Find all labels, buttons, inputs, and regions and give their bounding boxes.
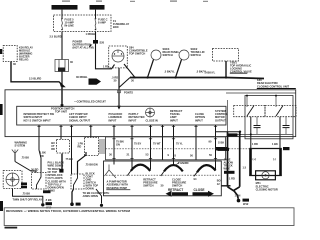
junction square at bus box top x62 <box>61 104 64 107</box>
svg-text:INPUT: INPUT <box>129 118 137 122</box>
ELEC dashed box <box>57 140 70 154</box>
svg-text:S20: S20 <box>100 41 105 45</box>
svg-text:INPUT: INPUT <box>170 118 178 122</box>
jog wire right top <box>216 131 241 133</box>
label 1.5 BK/RD black <box>216 147 228 150</box>
black label stack left <box>48 161 65 177</box>
diagonal from vertical wire to bus <box>119 78 130 88</box>
reference box <box>4 208 294 226</box>
text stack right of switch B <box>86 172 99 191</box>
Y58/1 text with underline <box>230 61 252 74</box>
wire to ground G3 <box>96 189 102 204</box>
svg-text:.5 BK/YL: .5 BK/YL <box>164 70 175 74</box>
bus wire .5 BK/YL horizontal <box>130 78 264 79</box>
svg-text:S BK: S BK <box>218 141 224 145</box>
motor symbol <box>256 171 276 180</box>
pump assembly box <box>104 161 222 196</box>
band dashed centre line <box>106 148 254 150</box>
svg-text:RELAY): RELAY) <box>19 58 29 62</box>
wire bar2 to fuse box <box>95 10 97 18</box>
svg-text:75 BY: 75 BY <box>134 142 141 146</box>
wire switch box down to control unit <box>118 68 120 106</box>
wire 1 RD/BL down from fuse C <box>95 32 97 41</box>
svg-text:REVISIONS: +: WIRING NOTES T: REVISIONS: +: WIRING NOTES TRUCK, EXTERI… <box>6 209 131 213</box>
retract arrow <box>166 191 189 197</box>
svg-text:PONTS: PONTS <box>124 91 133 95</box>
svg-text:(+): (+) <box>253 157 256 161</box>
svg-text:HOT ALWYS: HOT ALWYS <box>91 7 105 10</box>
closing motor box M51 <box>249 149 282 176</box>
wire antenna to switch A <box>15 162 36 173</box>
svg-text:1 BK: 1 BK <box>272 142 278 146</box>
pump dashed line <box>106 174 221 176</box>
K65 relay contact dashed box 1 <box>234 106 265 117</box>
connector square on wire 61 <box>59 169 63 173</box>
left edge artifact 3 <box>0 201 3 211</box>
pump interior switch <box>105 165 117 179</box>
svg-text:OUTPUT: OUTPUT <box>215 118 226 122</box>
ground G3 <box>100 204 103 207</box>
svg-text:DOWN: DOWN <box>86 187 94 191</box>
relay module K30 dashed box <box>3 46 17 62</box>
connector circle S84/3 <box>151 50 161 60</box>
svg-text:RD: RD <box>78 145 82 149</box>
arrowhead into control unit <box>117 106 121 110</box>
convertible top control unit box <box>17 106 226 125</box>
junction line under K65 <box>228 133 293 135</box>
ground G2 <box>70 202 74 206</box>
fuse 5 symbol <box>61 18 63 31</box>
wire switch B to ground <box>72 189 74 203</box>
svg-text:.75 BK: .75 BK <box>21 156 29 160</box>
black labels near horn <box>21 183 27 186</box>
hot-feed label bar 2 (HOT ALWAYS) <box>90 5 105 10</box>
svg-text:CLOSING MOTOR: CLOSING MOTOR <box>256 188 278 192</box>
svg-text:1 GN/RD: 1 GN/RD <box>178 161 189 165</box>
svg-text:.5 BK: .5 BK <box>45 198 52 202</box>
svg-text:REAR ELECTRIC: REAR ELECTRIC <box>257 81 278 85</box>
power distribution pointer arrow <box>89 45 93 49</box>
wire splice block to junction arrow <box>61 72 63 87</box>
svg-text:HOT IN RUN/START: HOT IN RUN/START <box>53 7 76 10</box>
pump arc 2 <box>164 165 183 171</box>
junction arrowhead <box>60 83 65 87</box>
ground W10 <box>41 203 44 206</box>
black label S RD/BK on wire <box>218 148 230 151</box>
S83 connector dashed box <box>85 138 99 156</box>
svg-text:(-): (-) <box>273 157 276 161</box>
svg-text:RETRACT: RETRACT <box>168 188 183 192</box>
pin tick marks <box>37 126 217 158</box>
svg-text:IN-LINE: IN-LINE <box>65 24 75 28</box>
svg-text:75 WT: 75 WT <box>153 142 161 146</box>
left edge artifact 1 <box>0 49 2 54</box>
arc contact marks <box>127 171 197 177</box>
close arrow <box>193 191 215 197</box>
svg-text:CLOSE: CLOSE <box>194 188 205 192</box>
svg-text:SWITCH: SWITCH <box>191 53 201 57</box>
svg-text:.5 BK/YL: .5 BK/YL <box>205 71 216 75</box>
fuse box F1 dashed outline <box>54 15 112 32</box>
label near junction <box>228 133 238 136</box>
svg-text:2.5 BL/RD: 2.5 BL/RD <box>50 35 62 39</box>
svg-text:1.5: 1.5 <box>243 166 247 170</box>
text stack right of switch A <box>48 176 66 192</box>
wire bar1 to fuse box <box>61 10 63 18</box>
svg-text:30 RD/BL: 30 RD/BL <box>76 75 88 79</box>
leg from S84/3 to bus <box>148 60 154 78</box>
wire 2.5 BL/RD down from fuse 5 <box>61 32 63 60</box>
convertible top switch dashed box <box>109 46 128 68</box>
K65 inner box <box>245 96 293 139</box>
top scan specks <box>62 1 208 2</box>
ground W12 <box>237 199 241 203</box>
capacitor 1 <box>254 117 261 135</box>
pump motor note underlined <box>106 180 130 191</box>
fuse C symbol <box>95 18 97 31</box>
junction pin square at y91 line <box>118 90 121 93</box>
pump arc 1 <box>131 165 150 171</box>
svg-text:1 RD: 1 RD <box>252 142 258 146</box>
K65 relay contact dashed box 2 <box>265 106 296 117</box>
svg-text:SIGNAL OUTPUT: SIGNAL OUTPUT <box>69 118 91 122</box>
svg-text:INPUT: INPUT <box>195 118 203 122</box>
contact 2 wire from top <box>275 96 277 108</box>
cu wheel symbol <box>146 108 158 122</box>
thick wire from junction down to ground <box>239 132 241 187</box>
horn dashed box <box>3 171 22 189</box>
svg-text:—CONTROLLED CIRCUIT: —CONTROLLED CIRCUIT <box>74 99 106 103</box>
svg-text:2.5 BL/RD: 2.5 BL/RD <box>29 77 41 81</box>
svg-text:.75 BK/GN: .75 BK/GN <box>85 163 98 167</box>
switch B contact <box>74 174 78 189</box>
svg-text:INPUT: INPUT <box>109 118 117 122</box>
bus box pin drops to band <box>39 125 216 174</box>
wire S83 down-right <box>78 152 87 174</box>
svg-text:W12: W12 <box>243 202 249 206</box>
K65 feed line <box>226 92 296 94</box>
svg-text:.75 BK: .75 BK <box>22 191 30 195</box>
black label stack right of band <box>224 158 235 174</box>
wire splice down to corner <box>96 44 115 69</box>
contact 2 diagonal <box>276 106 283 117</box>
pump arc 3 <box>197 165 216 172</box>
wire ELEC box down <box>61 154 63 172</box>
black bar .5 BN <box>43 190 51 193</box>
diagonal from switch to bus <box>124 64 135 78</box>
connector band box <box>106 137 226 160</box>
antenna symbol <box>12 150 18 162</box>
capacitor 2 <box>283 117 290 135</box>
S83 hatch pins <box>100 139 104 154</box>
contact 1 wire from top <box>246 96 248 108</box>
svg-text:30 RD: 30 RD <box>31 168 38 172</box>
wire from relay module down and right <box>11 62 64 107</box>
power supply big arrow <box>89 79 102 85</box>
svg-text:8 AMP: 8 AMP <box>98 21 106 25</box>
svg-text:75 BK: 75 BK <box>66 157 73 161</box>
svg-text:CLOSING CONTROL UNIT: CLOSING CONTROL UNIT <box>257 84 290 88</box>
svg-text:GN: GN <box>116 143 120 147</box>
svg-text:SWITCH: SWITCH <box>143 183 153 187</box>
svg-text:RESERVE PUMP: RESERVE PUMP <box>107 186 128 190</box>
switch rotary symbol <box>112 50 124 62</box>
connector circle S84/2 <box>179 50 189 60</box>
left edge artifact 2 <box>0 104 3 115</box>
pump pin 12 wire merge <box>221 185 230 187</box>
horn symbol <box>6 173 19 186</box>
svg-text:1 RD: 1 RD <box>229 177 235 181</box>
svg-text:BOX: BOX <box>113 25 119 29</box>
switch box B dashed <box>71 174 84 189</box>
svg-text:RD: RD <box>40 154 44 158</box>
svg-text:KEY S SWITCH INPUT: KEY S SWITCH INPUT <box>24 118 52 122</box>
K65 contact drops <box>250 117 252 149</box>
vacuum valve Y58/1 dashed box <box>213 49 239 62</box>
contact 1 diagonal <box>247 106 254 117</box>
splice block S (fuse wire to junction) <box>55 60 69 72</box>
svg-text:75 YL: 75 YL <box>176 142 183 146</box>
svg-text:RD: RD <box>51 147 55 151</box>
svg-text:M51: M51 <box>256 181 262 185</box>
outer system boundary box <box>5 90 296 137</box>
svg-text:TOP SWITCH: TOP SWITCH <box>129 52 145 56</box>
svg-text:WIRE: WIRE <box>224 167 231 171</box>
switch A contact <box>37 173 42 190</box>
svg-text:SWITCH: SWITCH <box>172 183 182 187</box>
svg-text:1 BN: 1 BN <box>235 194 241 198</box>
svg-text:1 RD: 1 RD <box>103 65 109 69</box>
svg-text:SYSTEM: SYSTEM <box>15 144 26 148</box>
bottom-left smudge <box>5 227 18 229</box>
wire valve to bus <box>225 61 227 78</box>
wire horn to ground <box>13 189 43 204</box>
switch box A dashed <box>32 173 47 190</box>
svg-text:TWIN SHUT OFF RELAY: TWIN SHUT OFF RELAY <box>13 198 43 202</box>
splice S20 <box>93 40 98 44</box>
svg-text:TOP UNIT: TOP UNIT <box>55 109 67 113</box>
svg-text:SWITCH: SWITCH <box>163 53 173 57</box>
svg-text:CLOSE IN: CLOSE IN <box>146 118 158 122</box>
K65 designation text <box>257 78 296 89</box>
svg-text:1 RD/BL: 1 RD/BL <box>86 32 97 36</box>
hot-feed label bar 1 (HOT IN RUN) <box>52 5 78 10</box>
leg from S84/2 to bus <box>176 60 182 78</box>
svg-text:JAWS OPEN: JAWS OPEN <box>83 194 99 198</box>
K65 wire left <box>227 100 229 132</box>
